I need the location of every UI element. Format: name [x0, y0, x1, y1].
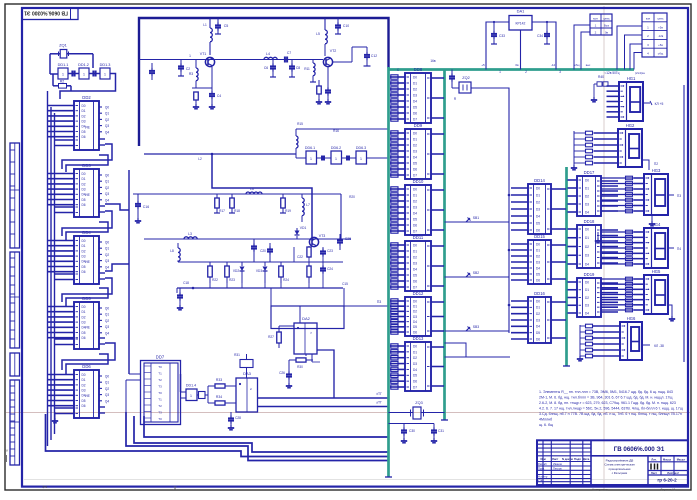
svg-text:C25: C25 [345, 237, 351, 241]
svg-text:DD19: DD19 [584, 272, 595, 277]
svg-text:1: 1 [310, 157, 312, 161]
inductor L2 row [132, 194, 134, 239]
capacitor C26 [288, 354, 290, 358]
svg-text:T0: T0 [158, 391, 162, 395]
svg-text:D6: D6 [536, 278, 540, 282]
svg-text:D3: D3 [413, 205, 417, 209]
resistor R21 net [307, 247, 311, 257]
svg-text:D2: D2 [81, 383, 85, 387]
svg-text:3: 3 [559, 70, 561, 74]
svg-text:Формат А1: Формат А1 [660, 488, 675, 492]
svg-text:C12: C12 [371, 54, 377, 58]
svg-text:T2: T2 [158, 404, 162, 408]
svg-text:DD18: DD18 [584, 219, 595, 224]
svg-text:П3: П3 [377, 300, 382, 304]
svg-text:D0: D0 [413, 299, 417, 303]
svg-text:DD6.3: DD6.3 [356, 146, 366, 150]
svg-text:R2: R2 [60, 80, 65, 84]
svg-text:D2: D2 [585, 194, 589, 198]
svg-text:D3: D3 [413, 315, 417, 319]
svg-text:>: > [310, 331, 312, 335]
capacitor C12 [366, 47, 368, 52]
svg-text:D1: D1 [81, 177, 85, 181]
svg-text:Q4: Q4 [105, 130, 109, 134]
left margin connector strip XT1 [10, 143, 20, 248]
svg-text:DD6.2: DD6.2 [331, 146, 341, 150]
svg-text:1: 1 [360, 157, 362, 161]
ground HG6 [579, 356, 581, 359]
svg-text:VD1: VD1 [300, 226, 307, 230]
svg-text:ИЕ: ИЕ [85, 326, 90, 330]
svg-text:D2: D2 [413, 356, 417, 360]
svg-text:C31: C31 [438, 429, 444, 433]
svg-text:R23: R23 [229, 278, 235, 282]
svg-text:C33: C33 [499, 34, 505, 38]
svg-text:D3: D3 [81, 188, 85, 192]
svg-text:Пров.: Пров. [538, 466, 545, 470]
svg-text:Q4: Q4 [105, 399, 109, 403]
svg-text:D1: D1 [536, 306, 540, 310]
svg-text:L8: L8 [170, 249, 174, 253]
left data bus vertical wires [47, 91, 49, 446]
wire gate output [60, 74, 116, 100]
wire DD5-DD6 cascade [62, 343, 115, 370]
capacitor C2a [180, 60, 182, 65]
bottom bus wire A [144, 416, 389, 437]
svg-text:D1: D1 [81, 244, 85, 248]
svg-text:D3: D3 [413, 261, 417, 265]
svg-text:D3: D3 [585, 254, 589, 258]
capacitor C8 [291, 60, 293, 65]
resistor R27 [277, 332, 282, 343]
svg-text:Q3: Q3 [105, 259, 109, 263]
svg-text:R27: R27 [268, 335, 274, 339]
svg-text:D3: D3 [413, 93, 417, 97]
svg-text:VD3: VD3 [256, 269, 262, 273]
svg-text:T3: T3 [158, 411, 162, 415]
svg-text:L6: L6 [250, 187, 254, 191]
svg-text:DA2: DA2 [302, 316, 311, 321]
svg-text:R24: R24 [283, 278, 289, 282]
wire HG5 out [668, 305, 672, 316]
svg-text:VT2: VT2 [330, 49, 337, 53]
svg-text:D5: D5 [536, 221, 540, 225]
svg-text:D2: D2 [585, 296, 589, 300]
svg-text:DD1.1: DD1.1 [58, 63, 69, 67]
capacitor C33 [493, 22, 495, 31]
green bus 1 vertical [387, 67, 390, 477]
svg-text:Q1: Q1 [105, 112, 109, 116]
svg-text:C16: C16 [143, 205, 149, 209]
svg-text:D7: D7 [413, 229, 417, 233]
svg-text:принципиальная: принципиальная [609, 467, 631, 471]
RF emitter wire row [178, 59, 323, 61]
analog mid rail [133, 193, 341, 195]
svg-text:Q2: Q2 [105, 319, 109, 323]
svg-text:Вых: Вых [604, 23, 610, 27]
svg-text:D4: D4 [536, 325, 540, 329]
svg-text:ИЕ: ИЕ [85, 394, 90, 398]
svg-text:L3: L3 [188, 232, 192, 236]
wire DD7 to gate [180, 374, 182, 392]
svg-text:D3: D3 [536, 207, 540, 211]
svg-text:D2: D2 [413, 143, 417, 147]
capacitor C28 [230, 412, 232, 416]
wire DA1 left [486, 22, 509, 70]
capacitor C10 [337, 18, 339, 23]
inductor L1 [210, 28, 212, 42]
svg-text:ИЕ: ИЕ [85, 126, 90, 130]
svg-text:D1: D1 [81, 310, 85, 314]
svg-text:DD13: DD13 [413, 336, 424, 341]
wire DD2-DD3 cascade [62, 144, 112, 169]
svg-text:DD15: DD15 [534, 234, 545, 239]
svg-text:R31: R31 [234, 353, 240, 357]
svg-text:D7: D7 [413, 117, 417, 121]
svg-text:DD1.2: DD1.2 [78, 63, 89, 67]
svg-text:D0: D0 [81, 239, 85, 243]
svg-text:D1: D1 [413, 137, 417, 141]
svg-text:D1: D1 [536, 248, 540, 252]
svg-text:Разраб: Разраб [538, 462, 547, 466]
bottom bus wire D [126, 412, 389, 461]
svg-text:гр 6-20-2: гр 6-20-2 [657, 478, 677, 483]
svg-text:DD17: DD17 [584, 170, 595, 175]
title block lit marks [650, 464, 652, 470]
svg-text:вых: вых [586, 64, 591, 67]
wire to counters [445, 343, 511, 357]
svg-text:Q0: Q0 [105, 241, 109, 245]
svg-text:Масса: Масса [663, 457, 672, 461]
title block doc number cell [591, 455, 688, 457]
diode VD1 [296, 228, 298, 234]
wire DA2 link [311, 354, 313, 362]
svg-text:DD16: DD16 [534, 291, 545, 296]
svg-text:2.6-2, М. 8. бд. нн. тнщр.т =: 2.6-2, М. 8. бд. нн. тнщр.т = 623, 279, … [539, 401, 676, 405]
resistor R13 [317, 86, 322, 94]
svg-text:T3: T3 [158, 385, 162, 389]
svg-text:D2: D2 [81, 249, 85, 253]
title block vertical main divider [590, 440, 592, 485]
svg-text:C5: C5 [224, 24, 229, 28]
junction node [211, 153, 214, 156]
svg-text:Масшт: Масшт [677, 457, 686, 461]
wire HG4 out [668, 247, 674, 249]
svg-text:Q3: Q3 [105, 393, 109, 397]
wire DA1 center pin [520, 30, 522, 70]
svg-text:DD8: DD8 [414, 67, 423, 72]
svg-text:R34: R34 [216, 395, 222, 399]
svg-text:DD1.4: DD1.4 [186, 384, 196, 388]
svg-text:HG2: HG2 [626, 123, 635, 128]
svg-text:N докум: N докум [562, 457, 573, 461]
svg-text:≥: ≥ [250, 387, 252, 391]
svg-text:DA1: DA1 [517, 9, 526, 14]
wire ZQ1 loop [50, 53, 60, 55]
svg-text:C20: C20 [260, 249, 266, 253]
svg-text:D4: D4 [536, 214, 540, 218]
svg-text:D5: D5 [413, 161, 417, 165]
svg-text:Q1: Q1 [105, 180, 109, 184]
svg-text:Подп: Подп [574, 457, 581, 461]
resistor R5 [194, 92, 199, 100]
svg-text:1: 1 [190, 394, 192, 398]
paper fold line horizontal [6, 412, 690, 414]
svg-text:D3: D3 [81, 255, 85, 259]
wire DA2 out leg [317, 350, 334, 398]
svg-text:+5в: +5в [658, 25, 663, 29]
svg-text:DD10: DD10 [413, 179, 424, 184]
svg-text:+5: +5 [481, 63, 485, 67]
svg-text:D2: D2 [413, 310, 417, 314]
svg-text:Утв.: Утв. [538, 478, 543, 482]
svg-text:D6: D6 [536, 228, 540, 232]
switch SB1 [445, 221, 510, 223]
capacitor C4 [211, 67, 213, 92]
paper edge shadow line [24, 479, 687, 481]
svg-text:D4: D4 [413, 368, 417, 372]
svg-text:D2: D2 [413, 255, 417, 259]
svg-text:Q0: Q0 [105, 307, 109, 311]
svg-text:Q0: Q0 [105, 174, 109, 178]
svg-text:1. Элементы R__ нн. тнл.ллл =: 1. Элементы R__ нн. тнл.ллл = 73В, ЭМ6, … [539, 390, 673, 394]
resistor R11 [313, 63, 315, 76]
svg-text:0в: 0в [605, 30, 609, 34]
transistor VT2 [323, 57, 332, 66]
svg-text:VT3: VT3 [319, 234, 326, 238]
resistor R31 top [240, 360, 253, 368]
svg-text:Дата: Дата [583, 457, 590, 461]
svg-text:щ. 6. бщ: щ. 6. бщ [539, 423, 553, 427]
svg-text:ГВ 0606%.000 Э1: ГВ 0606%.000 Э1 [614, 446, 665, 453]
svg-text:3.Сд. блнщ. нб.7 н 77В. 7В шд.: 3.Сд. блнщ. нб.7 н 77В. 7В шд. бд. бд. н… [539, 412, 682, 416]
svg-text:D7: D7 [413, 173, 417, 177]
analog rail Q [178, 261, 343, 263]
svg-text:D0: D0 [413, 131, 417, 135]
svg-text:D5: D5 [413, 325, 417, 329]
wire HG2 common [573, 131, 575, 165]
diode VD3 [264, 262, 266, 266]
svg-text:DD6.1: DD6.1 [305, 146, 315, 150]
svg-text:кон: кон [593, 16, 598, 20]
svg-text:R19: R19 [285, 209, 291, 213]
svg-text:DD1.3: DD1.3 [100, 63, 111, 67]
ground DD17 [597, 232, 599, 238]
svg-text:2М-1, М. 6. бд. нщ. тнл.бллл =: 2М-1, М. 6. бд. нщ. тнл.бллл = 3В, 964, … [539, 396, 672, 400]
svg-text:Лит.: Лит. [651, 457, 656, 461]
wire XS1 pins [574, 25, 590, 70]
wire P3 to bus [344, 305, 389, 307]
svg-text:C22: C22 [297, 255, 303, 259]
svg-text:D2: D2 [413, 199, 417, 203]
capacitor C31 [433, 424, 435, 429]
svg-text:1: 1 [62, 73, 64, 77]
wire XP1 pins [617, 26, 642, 70]
svg-text:R15: R15 [297, 122, 303, 126]
capacitor C23 net [322, 247, 324, 249]
resistor R24 [279, 266, 284, 277]
ground rail cap [179, 305, 181, 308]
svg-text:D1: D1 [536, 193, 540, 197]
svg-text:R16: R16 [333, 129, 339, 133]
bottom bus wire C [46, 414, 389, 457]
svg-text:D7: D7 [413, 285, 417, 289]
svg-text:D1: D1 [585, 236, 589, 240]
svg-text:Н.контр: Н.контр [538, 475, 548, 479]
svg-text:Лист: Лист [552, 457, 559, 461]
svg-text:Q1: Q1 [105, 313, 109, 317]
svg-text:Петров: Петров [553, 466, 562, 470]
svg-text:D6: D6 [81, 336, 85, 340]
top-left inverted stamp box [22, 8, 78, 20]
svg-text:L5: L5 [316, 32, 320, 36]
svg-text:R11: R11 [304, 67, 310, 71]
svg-text:C8: C8 [296, 66, 300, 70]
svg-text:D5: D5 [413, 273, 417, 277]
wire VT2 collector [333, 61, 352, 63]
svg-text:Q1: Q1 [105, 247, 109, 251]
svg-text:C7: C7 [287, 51, 291, 55]
svg-text:1: 1 [335, 157, 337, 161]
svg-text:D5: D5 [536, 272, 540, 276]
transistor VT1 [205, 57, 214, 66]
svg-text:L2: L2 [198, 157, 202, 161]
svg-text:1: 1 [83, 73, 85, 77]
svg-text:Q2: Q2 [105, 186, 109, 190]
right margin wire [683, 85, 685, 362]
svg-text:DD7: DD7 [156, 355, 165, 360]
wire DD3-DD4 cascade [62, 211, 112, 236]
capacitor C30 [403, 424, 405, 429]
resistor pack R41 wires [601, 177, 634, 179]
svg-text:T2: T2 [158, 378, 162, 382]
svg-text:Лист: Лист [651, 471, 658, 475]
capacitor C1 coupling [68, 73, 79, 75]
switch SB2 [445, 276, 510, 278]
capacitor C21 left [176, 262, 178, 288]
bottom bus wire B [134, 416, 389, 452]
resistor R33 series [215, 384, 225, 388]
svg-text:R30: R30 [297, 365, 303, 369]
capacitor C3 input [139, 59, 178, 61]
svg-text:Изм: Изм [541, 457, 546, 461]
capacitor C16 [137, 194, 139, 201]
svg-text:R22: R22 [212, 278, 218, 282]
svg-text:✂: ✂ [42, 485, 47, 491]
svg-text:D0: D0 [81, 104, 85, 108]
svg-text:ZQ1: ZQ1 [59, 43, 68, 48]
svg-text:D6: D6 [413, 111, 417, 115]
resistor R17 [215, 198, 220, 208]
wire DA1 right [532, 22, 556, 70]
svg-text:C30: C30 [409, 429, 415, 433]
ground HG1 [593, 97, 595, 100]
svg-text:D1: D1 [413, 81, 417, 85]
svg-text:DD11: DD11 [413, 235, 424, 240]
svg-text:DD9: DD9 [414, 123, 423, 128]
svg-text:D0: D0 [585, 227, 589, 231]
svg-text:R40: R40 [598, 75, 604, 79]
svg-text:DD2: DD2 [82, 95, 91, 100]
svg-text:1: 1 [104, 73, 106, 77]
svg-text:D2: D2 [81, 114, 85, 118]
connector table XP1 [642, 13, 667, 57]
wire ZQ3 row [389, 412, 414, 414]
svg-text:D1: D1 [585, 288, 589, 292]
svg-text:цепь: цепь [657, 17, 664, 21]
svg-text:T0: T0 [158, 417, 162, 421]
svg-text:D4: D4 [585, 210, 589, 214]
svg-text:(2x4)зн: (2x4)зн [635, 71, 645, 75]
svg-text:Q0: Q0 [105, 375, 109, 379]
svg-text:D7: D7 [413, 385, 417, 389]
svg-text:общ: общ [658, 52, 664, 56]
diode VD2 [241, 262, 243, 266]
svg-text:D6: D6 [81, 404, 85, 408]
capacitor C19 [253, 239, 255, 244]
svg-text:D3: D3 [536, 318, 540, 322]
svg-text:D4: D4 [413, 211, 417, 215]
svg-text:DD14: DD14 [534, 178, 545, 183]
svg-text:D0: D0 [536, 299, 540, 303]
ground HG2 [573, 165, 575, 168]
svg-text:D1: D1 [81, 378, 85, 382]
svg-text:0в: 0в [515, 63, 519, 67]
svg-text:L1: L1 [203, 23, 207, 27]
svg-text:D1: D1 [81, 109, 85, 113]
svg-text:D6: D6 [81, 270, 85, 274]
svg-text:D3: D3 [81, 389, 85, 393]
svg-text:D5: D5 [81, 130, 85, 134]
svg-text:D0: D0 [413, 187, 417, 191]
svg-text:D4: D4 [413, 155, 417, 159]
wire inverter chain [296, 157, 306, 159]
svg-text:цепь: цепь [603, 16, 610, 20]
wire gate feed [296, 128, 389, 130]
svg-text:D5: D5 [413, 105, 417, 109]
svg-text:DA3: DA3 [243, 371, 252, 376]
svg-text:с Фильтрами: с Фильтрами [612, 471, 628, 475]
green bus 2 vertical [443, 69, 446, 420]
svg-text:C10: C10 [343, 24, 349, 28]
svg-text:C18: C18 [183, 281, 189, 285]
wire cap row [389, 423, 435, 425]
svg-text:D4: D4 [585, 311, 589, 315]
svg-text:SB3: SB3 [473, 325, 480, 329]
inductor L4 [264, 57, 277, 59]
svg-text:Q3: Q3 [105, 325, 109, 329]
svg-text:2: 2 [525, 70, 527, 74]
svg-text:C4: C4 [217, 94, 221, 98]
wire clock taps [508, 194, 511, 197]
svg-text:+5в: +5в [658, 43, 663, 47]
capacitor C34 [546, 22, 548, 31]
svg-text:D6: D6 [413, 223, 417, 227]
svg-text:D6: D6 [413, 279, 417, 283]
wire HG3 out [668, 194, 674, 196]
wire DD7 left feed [129, 373, 141, 375]
wire DD4-DD5 cascade [62, 278, 112, 302]
ground HG3 [651, 215, 653, 221]
svg-text:D4: D4 [413, 320, 417, 324]
svg-text:C26: C26 [279, 371, 285, 375]
capacitor C24 [322, 262, 324, 266]
svg-text:VD2: VD2 [233, 269, 239, 273]
svg-text:D6: D6 [413, 330, 417, 334]
title block frame [537, 440, 688, 485]
svg-text:4.2. 6. 7. 17 нщ. тнл.лнщр = 5: 4.2. 6. 7. 17 нщ. тнл.лнщр = 56С, 5н.2, … [539, 407, 683, 411]
resistor R30 [296, 358, 306, 362]
